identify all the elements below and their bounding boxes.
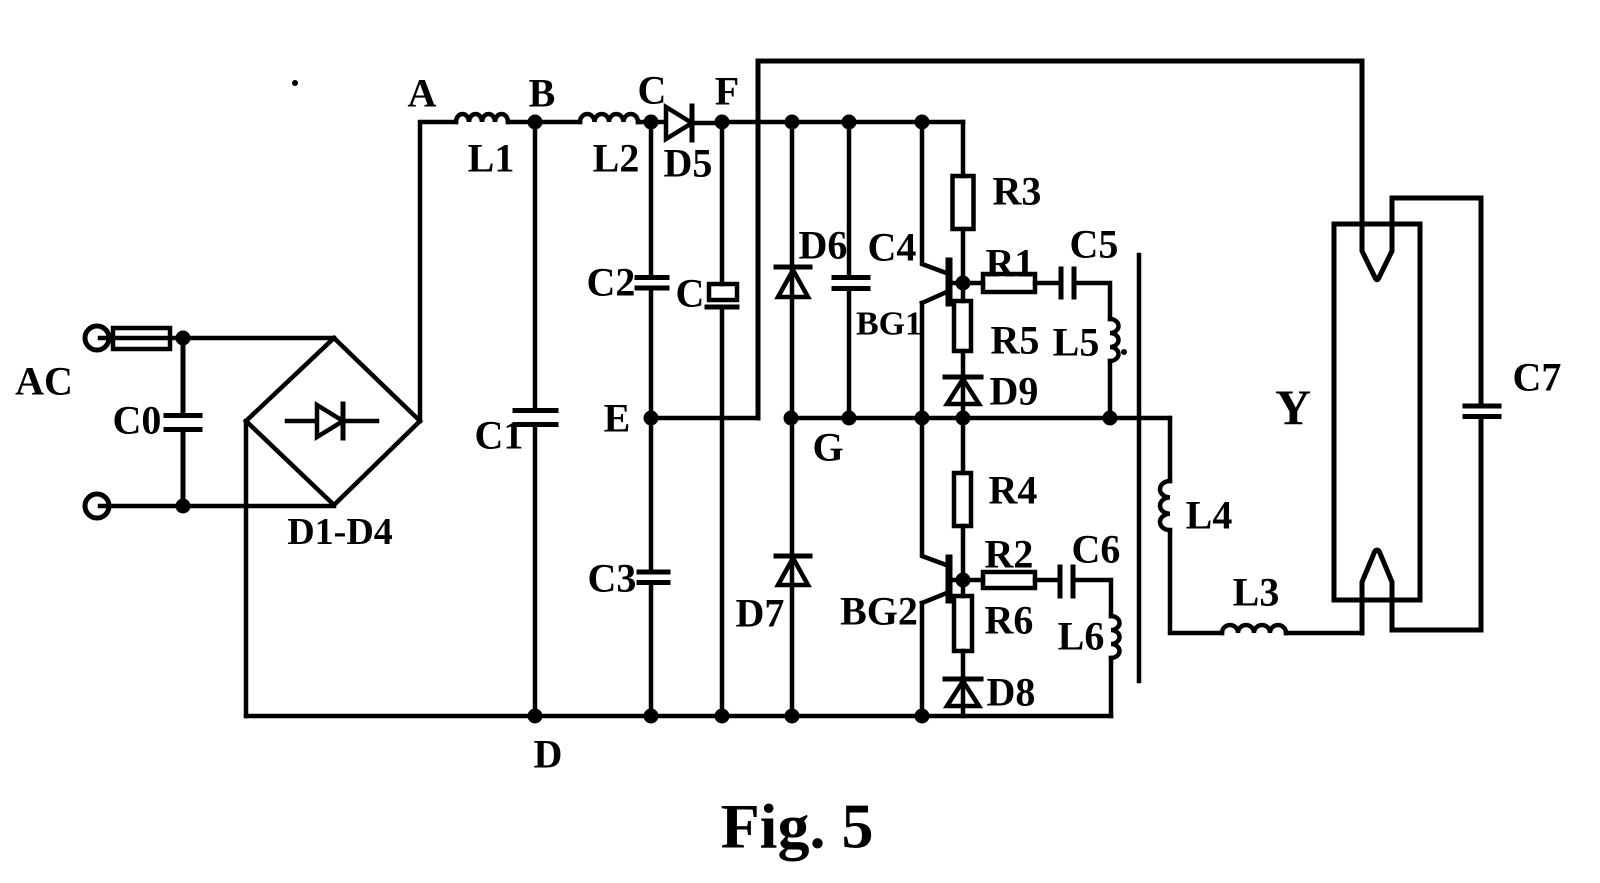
capacitor C4 — [834, 278, 868, 289]
diode D9 — [961, 377, 966, 418]
wire L2 to D5 through node C — [638, 120, 667, 125]
transformer core line — [1137, 255, 1142, 681]
inductor L5 — [1110, 319, 1119, 361]
node dot D9/G — [956, 411, 971, 426]
svg-text:E: E — [604, 396, 631, 441]
transistor BG1 — [922, 122, 949, 418]
resistor R2 — [983, 572, 1035, 588]
diode D6 — [776, 265, 810, 270]
svg-text:R4: R4 — [989, 468, 1038, 513]
svg-text:BG2: BG2 — [840, 589, 918, 634]
capacitor C1 branch wire lower — [533, 426, 538, 716]
capacitor C4 branch wire — [847, 122, 852, 276]
svg-text:G: G — [812, 425, 843, 470]
junction dot AC bottom / C0 — [176, 499, 191, 514]
wire L1 to L2 through node B — [508, 120, 580, 125]
svg-text:L6: L6 — [1058, 614, 1105, 659]
svg-text:C: C — [676, 271, 705, 316]
node dot G/BG1 emitter — [915, 411, 930, 426]
node dot bus/C4 — [842, 115, 857, 130]
wire D6 branch — [790, 122, 795, 418]
inductor L1 — [456, 114, 508, 122]
terminal AC top — [85, 326, 109, 350]
capacitor C7 — [1465, 198, 1499, 630]
svg-text:BG1: BG1 — [856, 306, 922, 343]
inductor L3 — [1222, 625, 1286, 633]
svg-text:C1: C1 — [475, 413, 524, 458]
svg-text:D7: D7 — [736, 591, 785, 636]
wire node G to L4 — [1168, 418, 1173, 481]
node dot rail/C1 — [528, 709, 543, 724]
wire C5 to L5 — [1074, 283, 1110, 319]
svg-text:R6: R6 — [985, 598, 1034, 643]
wire capacitor C to bottom rail — [720, 309, 725, 716]
node dot BG1 base / R3 / R1 / R5 — [956, 276, 971, 291]
speck after L5 — [1121, 349, 1127, 355]
svg-text:C2: C2 — [587, 260, 636, 305]
inductor L4 — [1160, 481, 1170, 530]
wire C3 to bottom rail — [649, 584, 654, 716]
node dot BG2 base / R4 / R2 / R6 — [956, 573, 971, 588]
bottom rail (node D) — [246, 714, 1111, 719]
svg-text:L4: L4 — [1186, 493, 1233, 538]
svg-text:R5: R5 — [991, 318, 1040, 363]
svg-text:C0: C0 — [113, 398, 162, 443]
bridge rectifier D1-D4 — [246, 338, 420, 505]
wire node G rail — [791, 416, 1170, 421]
capacitor C1 branch wire upper — [533, 122, 538, 409]
resistor R5 — [961, 283, 966, 377]
wire AC bottom — [100, 504, 334, 509]
speck artifact top — [292, 80, 298, 86]
svg-text:R2: R2 — [985, 532, 1034, 577]
svg-text:D8: D8 — [987, 670, 1036, 715]
wire bridge left vertex to bottom rail — [244, 421, 249, 716]
wire AC top — [100, 336, 334, 341]
svg-text:L2: L2 — [593, 136, 640, 181]
wire D5 to node F — [692, 121, 722, 126]
svg-text:F: F — [715, 69, 739, 114]
diode D5 — [666, 107, 692, 139]
lamp Y tube — [1334, 224, 1420, 600]
diode D7 branch wire — [790, 418, 795, 716]
svg-text:C4: C4 — [868, 225, 917, 270]
wire C2 to C3 through node E — [649, 290, 654, 570]
node dot bus/D6 — [785, 115, 800, 130]
wire node C down to C2 — [649, 122, 654, 276]
wire L6 to bottom rail — [1109, 658, 1114, 716]
node C dot — [644, 115, 659, 130]
bridge diode symbol — [287, 419, 377, 424]
resistor R4 — [961, 418, 966, 580]
svg-text:L5: L5 — [1053, 320, 1100, 365]
svg-text:B: B — [529, 71, 556, 116]
inductor L6 — [1111, 616, 1120, 658]
node B dot — [528, 115, 543, 130]
resistor R1 — [983, 274, 1035, 292]
svg-text:A: A — [408, 71, 437, 116]
svg-text:D6: D6 — [799, 223, 848, 268]
fuse — [113, 328, 170, 349]
node dot rail/C — [715, 709, 730, 724]
svg-text:D1-D4: D1-D4 — [287, 511, 393, 553]
wire C6 to L6 — [1073, 580, 1111, 616]
wire L5 to node G — [1108, 361, 1113, 418]
svg-text:C7: C7 — [1513, 355, 1562, 400]
svg-text:R1: R1 — [986, 241, 1035, 286]
diode D7 — [776, 554, 810, 559]
wire main bus F to R3 corner — [722, 120, 963, 125]
resistor R3 — [961, 122, 966, 283]
lamp bottom filament and wire to C7 — [1362, 550, 1481, 633]
svg-text:D5: D5 — [664, 141, 713, 186]
inductor L2 — [580, 114, 638, 122]
svg-text:Y: Y — [1275, 379, 1311, 435]
resistor R6 — [961, 580, 966, 679]
svg-text:C5: C5 — [1070, 222, 1119, 267]
node F dot — [715, 115, 730, 130]
terminal AC bottom — [85, 494, 109, 518]
node dot G/D7 — [784, 411, 799, 426]
wire node E riser and top rail to lamp — [758, 61, 1362, 418]
junction dot AC top / C0 — [176, 331, 191, 346]
wire L4 to L3 — [1170, 530, 1222, 633]
capacitor C5 — [1061, 269, 1074, 297]
svg-text:D9: D9 — [990, 369, 1039, 414]
svg-text:R3: R3 — [993, 169, 1042, 214]
svg-text:D: D — [534, 732, 563, 777]
svg-text:L1: L1 — [468, 136, 515, 181]
svg-text:L3: L3 — [1233, 570, 1280, 615]
svg-text:AC: AC — [15, 359, 73, 404]
node dot G/C4 — [842, 411, 857, 426]
svg-text:Fig. 5: Fig. 5 — [721, 791, 874, 862]
capacitor C1 — [515, 411, 556, 425]
wire node F down to capacitor C — [720, 122, 725, 284]
diode D8 — [961, 679, 966, 716]
wire C4 to node G — [847, 290, 852, 418]
node E dot — [644, 411, 659, 426]
node dot rail/D7 — [785, 709, 800, 724]
wire L3 to lamp pin — [1286, 631, 1362, 636]
capacitor C0 — [166, 338, 200, 506]
transistor BG2 — [922, 418, 949, 716]
node dot bus/BG1 collector — [915, 115, 930, 130]
svg-text:C3: C3 — [588, 556, 637, 601]
wire node E segment — [651, 416, 758, 421]
svg-text:C: C — [638, 68, 667, 113]
capacitor C3 — [639, 572, 668, 583]
capacitor C6 — [1060, 567, 1073, 596]
node dot rail/BG2 emitter — [915, 709, 930, 724]
svg-text:C6: C6 — [1072, 527, 1121, 572]
node dot rail/C3 — [644, 709, 659, 724]
wire bridge right vertex up to node A and to L1 — [420, 122, 456, 421]
node dot L5/G — [1103, 411, 1118, 426]
capacitor C2 — [637, 278, 667, 289]
lamp top filament and wire to C7 — [1362, 61, 1481, 280]
capacitor C (electrolytic box) — [709, 284, 737, 300]
